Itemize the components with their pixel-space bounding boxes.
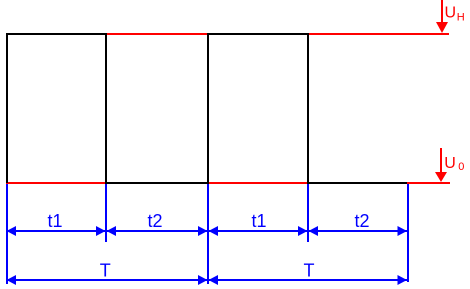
wire extension line x=308 (307, 184, 309, 242)
dimension T (second period) (208, 275, 407, 285)
dimension t1 (first) (7, 226, 107, 236)
svg-text:U: U (445, 5, 457, 22)
svg-text:t2: t2 (147, 211, 162, 231)
svg-text:U: U (444, 155, 456, 172)
svg-text:H: H (457, 12, 465, 24)
dimension t2 (second) (308, 226, 407, 236)
svg-text:0: 0 (458, 161, 464, 173)
wire extension line x=208 (207, 184, 209, 284)
svg-text:t1: t1 (251, 211, 266, 231)
wire extension line x=7 (6, 184, 8, 284)
dimension T (first period) (7, 275, 209, 285)
svg-text:t2: t2 (354, 211, 369, 231)
svg-text:T: T (100, 261, 111, 281)
dimension t2 (first) (106, 226, 208, 236)
arrow U0 (red down arrow at bottom right) (435, 148, 447, 182)
arrow UH (red down arrow at top right) (436, 0, 448, 33)
node U0 level reference line (red, bottom) (6, 182, 450, 184)
svg-text:T: T (304, 261, 315, 281)
wire PWM waveform (black square wave) (7, 34, 407, 183)
wire extension line x=408 (407, 184, 409, 282)
svg-text:t1: t1 (47, 211, 62, 231)
node UH level reference line (red, top) (6, 33, 449, 35)
dimension t1 (second) (208, 226, 308, 236)
wire extension line x=106 (105, 184, 107, 242)
